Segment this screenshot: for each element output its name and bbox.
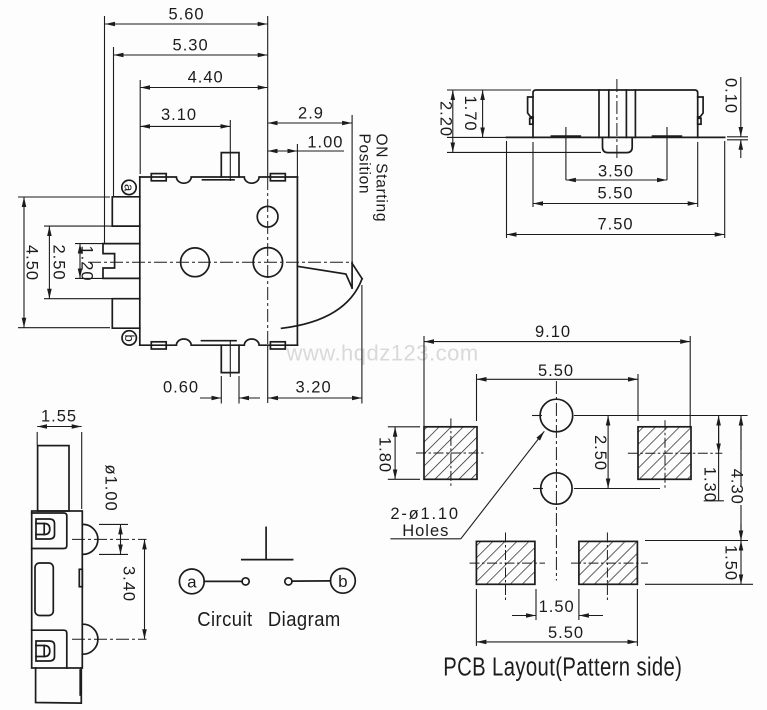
svg-text:5.60: 5.60	[168, 6, 204, 24]
svg-text:Circuit Diagram: Circuit Diagram	[197, 608, 341, 631]
svg-text:5.30: 5.30	[173, 37, 209, 55]
svg-text:Holes: Holes	[402, 522, 449, 540]
svg-text:3.20: 3.20	[296, 378, 332, 396]
svg-text:1.55: 1.55	[41, 408, 77, 426]
svg-text:a: a	[187, 573, 197, 592]
svg-text:4.50: 4.50	[23, 245, 41, 281]
svg-text:4.30: 4.30	[728, 469, 746, 505]
svg-text:5.50: 5.50	[548, 624, 584, 642]
svg-text:3.40: 3.40	[120, 566, 138, 602]
svg-text:5.50: 5.50	[597, 185, 633, 203]
svg-text:7.50: 7.50	[597, 216, 633, 234]
svg-text:2.50: 2.50	[591, 435, 609, 471]
svg-text:www.hqdz123.com: www.hqdz123.com	[286, 341, 479, 366]
svg-text:4.40: 4.40	[188, 69, 224, 87]
svg-text:2.50: 2.50	[50, 245, 68, 281]
svg-text:0.10: 0.10	[722, 78, 740, 114]
svg-text:b: b	[338, 572, 347, 591]
svg-text:ø1.00: ø1.00	[102, 465, 120, 512]
svg-text:1.20: 1.20	[78, 246, 96, 282]
svg-text:3.10: 3.10	[161, 106, 197, 124]
svg-text:9.10: 9.10	[535, 323, 571, 341]
svg-text:3.50: 3.50	[598, 163, 634, 181]
svg-text:PCB Layout(Pattern side): PCB Layout(Pattern side)	[443, 652, 682, 681]
svg-text:0.60: 0.60	[163, 378, 199, 396]
svg-text:1.50: 1.50	[539, 598, 575, 616]
svg-text:1.70: 1.70	[461, 96, 479, 132]
svg-text:1.00: 1.00	[307, 133, 343, 151]
svg-text:b: b	[122, 334, 137, 341]
svg-text:a: a	[122, 184, 137, 192]
svg-text:2.20: 2.20	[437, 101, 455, 137]
svg-text:1.30: 1.30	[701, 467, 719, 503]
svg-text:2.9: 2.9	[298, 104, 324, 122]
svg-text:1.50: 1.50	[722, 545, 740, 581]
svg-text:2-ø1.10: 2-ø1.10	[390, 505, 459, 523]
svg-text:5.50: 5.50	[538, 362, 574, 380]
svg-text:1.80: 1.80	[376, 437, 394, 473]
